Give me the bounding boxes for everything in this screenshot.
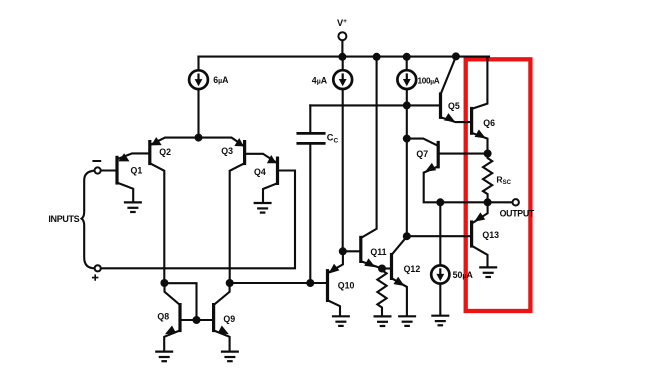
svg-text:Q13: Q13 xyxy=(482,230,499,240)
svg-text:Q6: Q6 xyxy=(483,118,495,128)
svg-text:Q7: Q7 xyxy=(416,149,428,159)
svg-text:6µA: 6µA xyxy=(213,75,229,85)
svg-text:Q10: Q10 xyxy=(338,280,355,290)
svg-text:Q12: Q12 xyxy=(404,264,421,274)
svg-text:Q8: Q8 xyxy=(157,311,169,321)
svg-text:100µA: 100µA xyxy=(418,77,440,86)
svg-text:INPUTS: INPUTS xyxy=(48,214,79,224)
svg-text:Q3: Q3 xyxy=(221,146,233,156)
svg-text:Q4: Q4 xyxy=(254,167,266,177)
svg-text:Q2: Q2 xyxy=(159,147,171,157)
svg-text:Q5: Q5 xyxy=(448,101,460,111)
svg-text:4µA: 4µA xyxy=(312,76,328,86)
svg-text:Q11: Q11 xyxy=(370,247,386,257)
svg-text:Q1: Q1 xyxy=(131,165,143,175)
svg-text:Q9: Q9 xyxy=(223,314,235,324)
